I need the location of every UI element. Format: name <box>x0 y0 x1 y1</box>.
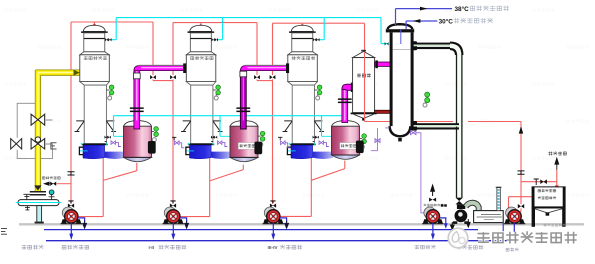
black arrows near vacuum pump <box>451 222 455 230</box>
svg-text:III-IV: III-IV <box>268 245 279 251</box>
drum top-left fitting <box>23 194 30 199</box>
ground line <box>19 223 584 225</box>
drum bottom-left drain <box>25 206 30 210</box>
steam distributor drum <box>18 200 59 206</box>
wire cyan drop to vessel2 neck valve <box>222 18 224 40</box>
wire blue tank drain <box>502 223 504 241</box>
drum support leg <box>37 206 42 223</box>
wire blue cooling water risers <box>395 9 397 26</box>
arrow steam into vessel1 <box>74 70 80 76</box>
node red tick to vessel1 dome <box>93 22 95 26</box>
legend 30C cooling water supply <box>406 17 493 25</box>
flanges at yellow pipe bottom <box>34 185 41 190</box>
wire red drop through demister x364.5 <box>364 23 366 121</box>
wire cyan top header <box>116 17 381 19</box>
drum pressure gauge (teal) <box>51 195 53 200</box>
steam bypass piping (gray) <box>17 103 52 158</box>
label water-ring vacuum pump <box>457 245 462 250</box>
pump P4 condensate pump <box>424 185 444 206</box>
wire blue main A <box>44 229 478 231</box>
legend 38C cooling water return <box>396 5 510 13</box>
bypass valve <box>11 139 22 149</box>
wire cyan drop v2 to fitting stack <box>219 116 221 137</box>
wire cyan drop to condenser <box>380 18 382 44</box>
pipe thick upper (vapor to vacuum line) <box>411 41 463 55</box>
label (tiny) steam trap <box>42 177 45 180</box>
pipe dark-red condenser drain to demister <box>375 110 391 113</box>
pump vacuum (water-ring) <box>453 198 469 224</box>
arrow up on x521 <box>519 127 523 133</box>
label discharge pump <box>506 248 509 251</box>
fitting drain left of column2 <box>172 137 176 140</box>
wire red vertical x521 to pump5 <box>520 122 522 205</box>
pipe ribbed elbow vacuum pump to tank <box>466 203 479 211</box>
label discharge circulation pump <box>62 245 66 249</box>
pump P1 discharge circulation pump <box>61 201 87 240</box>
wire red top header segment 1 <box>71 21 153 23</box>
pipe vertical (to vacuum pump) <box>457 54 462 198</box>
pipe blue header3 to separator3 <box>313 152 334 159</box>
fitting cyan/condenser connection <box>385 42 389 45</box>
wire red vertical steam-condensate line at x71 <box>70 22 72 204</box>
svg-text:38°C: 38°C <box>455 5 470 13</box>
valve X on steam riser <box>31 114 45 125</box>
pipe magenta riser separator1 <box>130 70 144 129</box>
condenser vessel <box>386 24 414 141</box>
hopper receiving bin <box>532 187 566 227</box>
steam trap symbol on x71 line <box>68 172 75 175</box>
label under hopper <box>544 224 547 227</box>
wire red top header segment 2 <box>173 22 257 24</box>
wire red branch to hopper top <box>521 181 557 183</box>
vent symbol on hopper feed <box>534 179 539 185</box>
vessel E3 (third effect heater) heater column <box>283 25 329 159</box>
wire cyan drop v3 to fitting stack <box>321 116 323 137</box>
wire red pump1 circulation loop <box>78 216 103 218</box>
pipe blue header1 to separator1 <box>105 152 126 159</box>
label material direction <box>548 152 552 156</box>
fitting at left page edge <box>1 229 7 235</box>
fitting bracket far left of header1 <box>51 143 57 149</box>
wire red line through demister (overlay) <box>364 52 366 122</box>
condensate drain valve + arrow <box>57 183 72 185</box>
pipe yellow horizontal into vessel1 <box>35 70 80 75</box>
wire cyan drop to vessel3 neck valve <box>323 18 325 40</box>
wire red drop at x153 with valve <box>152 22 154 75</box>
wire blue under P5 <box>513 223 515 240</box>
valve above pump5 <box>518 204 524 208</box>
separator S3 (third effect flash chamber) <box>332 121 367 160</box>
separator S2 (second effect flash chamber) <box>230 121 265 162</box>
pipe magenta vapor 1 to 2 <box>134 63 186 73</box>
pipe magenta vapor 2 to 3 <box>240 63 289 73</box>
valve green pair right of condenser <box>423 92 430 107</box>
tank water seal <box>474 211 504 223</box>
wire blue main B <box>46 240 515 242</box>
wire red pump5 outlet to hopper <box>509 196 532 198</box>
pump P5 discharge pump <box>504 207 526 224</box>
fitting purple condenser left drain <box>371 128 380 151</box>
material outlet arrow (up) <box>555 158 559 169</box>
vessel E2 (second effect heater) heater column <box>181 25 227 159</box>
pump P3 effect II-III transfer pump <box>263 201 289 240</box>
wire red drop at x257 with valve <box>256 23 258 75</box>
pipe magenta riser separator3 to demister <box>338 83 354 123</box>
watermark text <box>477 231 577 243</box>
wire cyan drop to vessel1 neck valve <box>115 18 117 40</box>
faint background watermark tiles <box>4 8 589 197</box>
separator S1 (first effect flash chamber) <box>124 121 159 162</box>
wire red vertical x272.5 (to pump3) with valve <box>272 23 274 75</box>
wire red pump2 transfer line to sep2 <box>180 216 210 218</box>
vessel E1 (first effect heater) heater column <box>75 25 121 159</box>
wire red loop1 horizontal <box>153 80 173 82</box>
node red tick to vessel3 dome <box>301 23 303 27</box>
wire red vertical x173 (to pump2) with valve <box>172 23 174 75</box>
level gauge column <box>496 187 502 210</box>
globe valve on steam riser <box>31 139 45 149</box>
wire cyan drop v1 to fitting stack <box>113 116 115 137</box>
pipe yellow steam riser <box>35 71 40 192</box>
node red tick to vessel2 dome <box>200 23 202 27</box>
wire red loop2 horizontal <box>257 80 273 82</box>
pipe magenta demister to condenser <box>375 60 391 68</box>
wire cyan lower header <box>114 115 347 117</box>
demister (mist catcher) column <box>351 50 377 121</box>
fitting marks left of vacuum pump <box>441 204 444 206</box>
fitting drain left of column3 <box>278 137 282 140</box>
svg-text:I-II: I-II <box>149 245 155 251</box>
svg-text:30°C: 30°C <box>439 17 454 25</box>
wire red pump3 transfer line to sep3 <box>280 215 312 217</box>
pipe magenta riser separator2 <box>236 70 250 129</box>
wire red top header segment 3 <box>273 22 365 24</box>
wire cyan drum centerline <box>16 202 62 204</box>
pipe blue header2 to separator2 <box>211 152 232 159</box>
pipe thick lower (condenser outlet) <box>411 121 459 131</box>
wire red condensate header y121.5 <box>365 121 454 123</box>
wire red vertical into hopper <box>556 170 558 188</box>
label condensate pump <box>415 245 420 249</box>
pump P4 condensate pump body <box>422 207 444 240</box>
pump P2 effect I-II transfer pump <box>163 201 189 240</box>
label steam system <box>22 245 27 249</box>
fitting purple condensate takeoff <box>385 128 427 213</box>
wire blue P4 outlet <box>439 218 445 224</box>
watermark logo <box>448 228 468 248</box>
steam trap symbol on x521 line <box>518 171 525 174</box>
